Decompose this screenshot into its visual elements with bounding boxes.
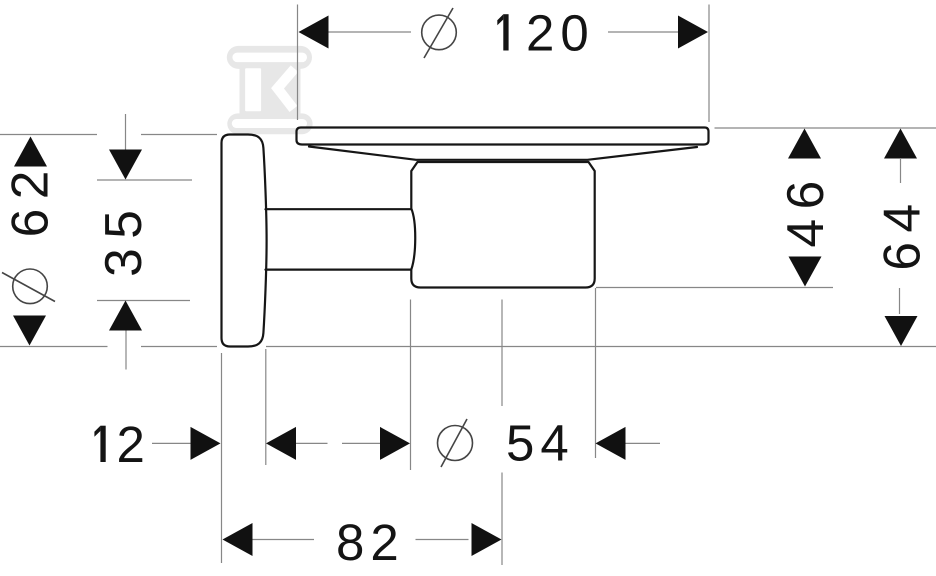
svg-text:20: 20	[526, 5, 595, 62]
svg-text:54: 54	[506, 415, 575, 472]
svg-text:35: 35	[94, 201, 152, 277]
svg-text:62: 62	[1, 161, 59, 237]
svg-text:2: 2	[117, 416, 151, 473]
svg-text:82: 82	[336, 514, 405, 571]
svg-text:46: 46	[776, 171, 834, 247]
svg-text:64: 64	[873, 194, 931, 270]
